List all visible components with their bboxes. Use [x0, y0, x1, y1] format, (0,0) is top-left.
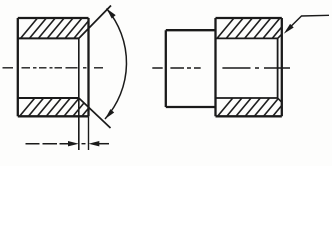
left view outline rectangle	[18, 18, 89, 116]
dimension arrow pointing right	[68, 141, 79, 146]
leader line to chamfer	[287, 15, 330, 30]
shaft (small rectangle)	[166, 30, 216, 107]
chamfer width dimension line left segment	[26, 143, 71, 145]
angle dimension arc	[105, 9, 126, 120]
hatching left view top band	[19, 16, 111, 41]
bore line top	[18, 37, 79, 39]
chamfer edge line and lower extension line	[78, 38, 80, 150]
chamfer width dimension line right segment	[97, 143, 109, 145]
hatching left view bottom band	[18, 96, 108, 119]
chamfer cone line top right view	[278, 34, 282, 38]
extension line of end face (below figure)	[88, 116, 90, 150]
arc arrowhead top	[107, 9, 116, 19]
chamfer cone line bottom right view	[278, 98, 282, 102]
short dash between extension lines	[82, 143, 86, 145]
chamfer edge line right view	[277, 38, 279, 98]
arc arrowhead bottom	[105, 109, 114, 119]
bore line top right view	[216, 37, 278, 39]
dimension arrow pointing left	[89, 141, 100, 146]
hatching right view bottom band	[216, 96, 300, 119]
leader arrowhead	[284, 24, 294, 34]
bore line bottom	[18, 97, 79, 99]
chamfer cone line bottom + angle extension line (collinear)	[79, 98, 111, 128]
hub outline rectangle	[216, 18, 282, 116]
center line right view (dash-dot)	[152, 67, 290, 69]
bore line bottom right view	[216, 97, 278, 99]
hatching right view top band	[215, 16, 300, 41]
center line left view (dash-dot)	[3, 67, 104, 69]
chamfer cone line top + angle extension line (collinear)	[79, 6, 111, 39]
